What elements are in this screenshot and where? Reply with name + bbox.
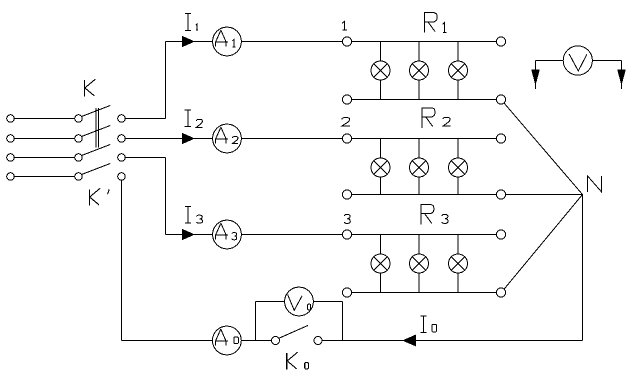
wire input row 3 bbox=[14, 157, 74, 159]
wire R2 lamp1 lower lead bbox=[380, 177, 382, 195]
wire R1 lamp1 upper lead bbox=[380, 42, 382, 62]
lamp R3-2 bbox=[410, 254, 429, 273]
wire R2 lamp3 lower lead bbox=[457, 177, 459, 195]
wire phase2 to A2 bbox=[125, 138, 212, 140]
wire V0 right horizontal bbox=[313, 301, 342, 303]
switch pole 3 hinge contact bbox=[75, 154, 83, 162]
input terminal L4 left bbox=[7, 173, 15, 181]
wire row3 to riser bbox=[125, 157, 165, 159]
wire input row 1 bbox=[14, 118, 74, 120]
current arrow I0 bbox=[403, 335, 415, 345]
current arrow I3 bbox=[183, 230, 194, 240]
wire A2 to node 2 bbox=[241, 138, 342, 140]
ammeter A2 bbox=[213, 124, 242, 153]
wire R2 bottom bus bbox=[352, 194, 497, 196]
label I1 bbox=[185, 14, 198, 31]
wire R3 lamp3 lower lead bbox=[457, 273, 459, 293]
label N bbox=[588, 176, 602, 192]
label I3 bbox=[185, 206, 203, 223]
lamp R1-1 bbox=[371, 61, 390, 80]
label node 1 bbox=[342, 21, 347, 30]
switch K0 left contact bbox=[272, 337, 280, 345]
switch blade pole 2 bbox=[82, 126, 111, 137]
wire R1 lamp1 lower lead bbox=[380, 80, 382, 100]
wire R2 top bus bbox=[352, 138, 497, 140]
voltmeter V bbox=[563, 46, 592, 75]
wire A1 to node 1 bbox=[241, 41, 342, 43]
lamp R3-1 bbox=[371, 254, 390, 273]
wire R1 lamp3 lower lead bbox=[457, 80, 459, 100]
wire R3 lamp3 upper lead bbox=[457, 235, 459, 255]
switch pole 1 hinge contact bbox=[75, 115, 83, 123]
ammeter A0 bbox=[213, 326, 242, 355]
terminal R3 bottom right bbox=[496, 288, 505, 297]
wire R2 lamp3 upper lead bbox=[457, 139, 459, 159]
wire phase1 to A1 bbox=[166, 41, 213, 43]
voltmeter V right lead bbox=[592, 61, 625, 90]
terminal R3 bottom left bbox=[342, 288, 351, 297]
wire R3 top bus bbox=[352, 234, 497, 236]
wire R2 lamp2 lower lead bbox=[418, 177, 420, 195]
wire R1 lamp2 upper lead bbox=[418, 42, 420, 62]
label I2 bbox=[185, 110, 203, 127]
label K0 bbox=[287, 352, 309, 369]
lamp R1-2 bbox=[410, 61, 429, 80]
wire row1 to riser bbox=[125, 118, 165, 120]
label K' bbox=[89, 188, 109, 205]
label node 3 bbox=[344, 214, 350, 223]
wire R1 top bus bbox=[352, 41, 497, 43]
terminal R1 bottom left bbox=[342, 95, 351, 104]
lamp R3-3 bbox=[449, 254, 468, 273]
switch blade pole 1 bbox=[82, 106, 111, 117]
node 2 bbox=[342, 134, 351, 143]
current arrow I1 bbox=[183, 37, 194, 47]
wire R2 lamp1 upper lead bbox=[380, 139, 382, 159]
input terminal L2 left bbox=[7, 135, 15, 143]
label I0 bbox=[420, 316, 436, 333]
terminal R1 top right bbox=[496, 37, 505, 46]
switch blade pole 4 bbox=[82, 164, 111, 175]
label R2 bbox=[422, 107, 450, 128]
switch pole 3 throw contact bbox=[118, 154, 126, 162]
current arrow I2 bbox=[183, 134, 194, 144]
switch K0 blade bbox=[279, 325, 308, 338]
lamp R1-3 bbox=[449, 61, 468, 80]
wire R1 bottom bus bbox=[352, 99, 497, 101]
wire R3 lamp2 lower lead bbox=[418, 273, 420, 293]
wire input row 4 bbox=[14, 176, 74, 178]
wire V0 left leg bbox=[255, 302, 257, 341]
switch pole 1 throw contact bbox=[118, 115, 126, 123]
terminal R1 bottom right bbox=[496, 95, 505, 104]
wire R1 lamp3 upper lead bbox=[457, 42, 459, 62]
wire K' to A0 bbox=[122, 340, 213, 342]
wire R3 bottom bus bbox=[352, 292, 497, 294]
wire R3 return to N bbox=[504, 195, 582, 290]
lamp R2-2 bbox=[410, 158, 429, 177]
wire phase1 riser bbox=[165, 42, 167, 119]
wire R1 lamp2 lower lead bbox=[418, 80, 420, 100]
label node 2 bbox=[342, 118, 350, 127]
terminal R2 bottom left bbox=[342, 190, 351, 199]
wire V0 left horizontal bbox=[256, 301, 285, 303]
wire A0 to K0 bbox=[241, 340, 271, 342]
wire phase3 to A3 bbox=[166, 234, 213, 236]
node 3 bbox=[342, 230, 351, 239]
terminal R3 top right bbox=[496, 230, 505, 239]
switch blade pole 3 bbox=[82, 145, 111, 156]
node 1 bbox=[342, 37, 351, 46]
voltmeter V left lead bbox=[532, 61, 563, 90]
label K bbox=[85, 79, 96, 96]
lamp R2-1 bbox=[371, 158, 390, 177]
wire input row 2 bbox=[14, 138, 74, 140]
wire K' drop bbox=[121, 180, 123, 340]
label R1 bbox=[424, 12, 446, 33]
wire R3 lamp1 lower lead bbox=[380, 273, 382, 293]
switch K0 right contact bbox=[314, 337, 322, 345]
wire R3 lamp2 upper lead bbox=[418, 235, 420, 255]
switch pole 2 throw contact bbox=[118, 135, 126, 143]
wire R2 return to N bbox=[506, 194, 583, 196]
label R3 bbox=[421, 204, 448, 225]
wire A3 to node 3 bbox=[241, 234, 342, 236]
switch K gang bar bbox=[96, 108, 99, 148]
input terminal L3 left bbox=[7, 154, 15, 162]
wire neutral from N bbox=[322, 340, 583, 342]
wire phase3 riser bbox=[165, 158, 167, 235]
lamp R2-3 bbox=[449, 158, 468, 177]
voltmeter V0 bbox=[285, 287, 314, 316]
wire V0 right leg bbox=[342, 302, 344, 341]
wire R2 lamp2 upper lead bbox=[418, 139, 420, 159]
wire R3 lamp1 upper lead bbox=[380, 235, 382, 255]
node N wire down bbox=[582, 195, 584, 341]
ammeter A3 bbox=[213, 220, 242, 249]
wire R1 return to N bbox=[504, 103, 583, 195]
ammeter A1 bbox=[213, 27, 242, 56]
switch pole 2 hinge contact bbox=[75, 135, 83, 143]
input terminal L1 left bbox=[7, 115, 15, 123]
switch pole 4 throw contact bbox=[118, 173, 126, 181]
terminal R2 top right bbox=[496, 134, 505, 143]
switch pole 4 hinge contact bbox=[75, 173, 83, 181]
terminal R2 bottom right bbox=[496, 190, 505, 199]
